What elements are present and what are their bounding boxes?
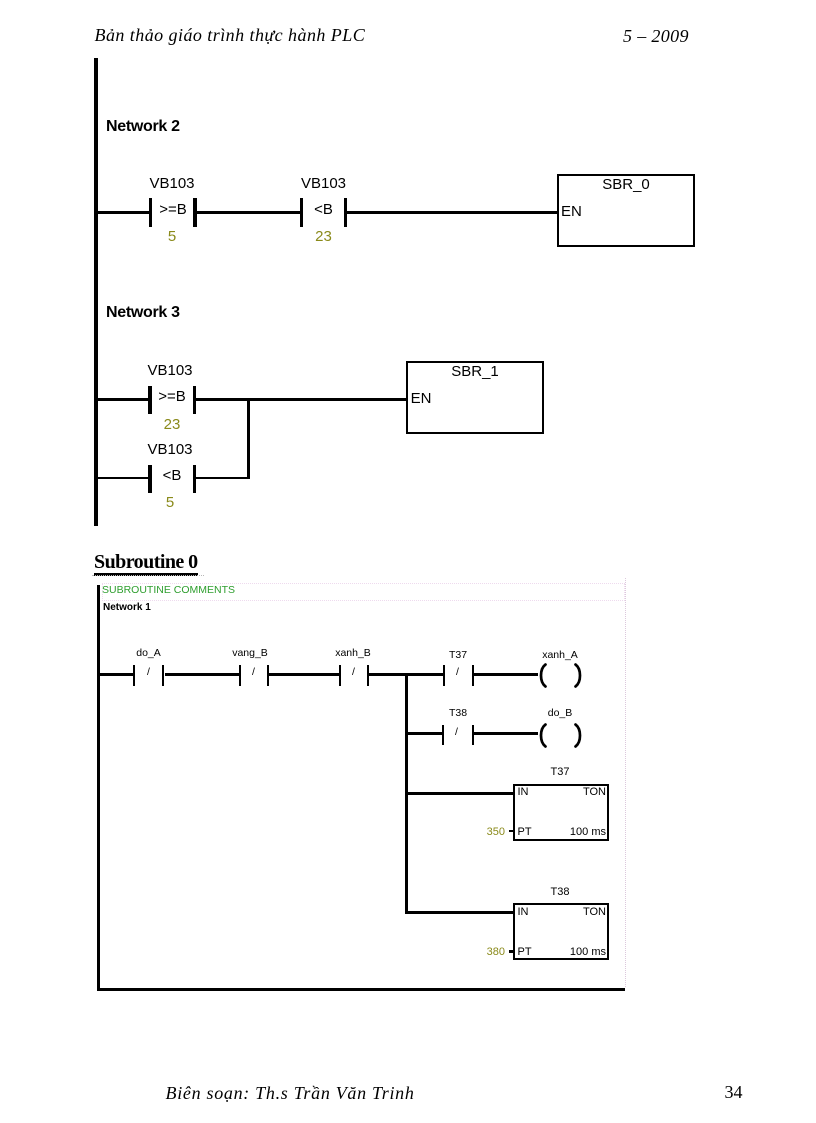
heading Subroutine 0 — [94, 551, 198, 574]
pin EN (SBR_1) — [411, 390, 432, 407]
wire rail to contact (N3 row1) — [96, 398, 149, 401]
label T37 (contact) — [428, 650, 488, 662]
wire rail stub rung1 — [99, 673, 133, 676]
contact xanh_B — [339, 665, 341, 686]
branch junction vertical (N3) — [247, 398, 251, 479]
timer box T38 TON — [513, 903, 609, 960]
label do_B — [530, 708, 590, 720]
net label Network 3 — [106, 304, 180, 322]
footer author — [166, 1083, 415, 1104]
subroutine frame top dotted stub — [92, 575, 204, 576]
branch junction vertical (rung1 down) — [405, 673, 408, 913]
value 23 (N3) — [132, 416, 212, 433]
contact VB103 >=B (N2) — [149, 198, 152, 227]
value 380 — [455, 946, 505, 959]
wire contact1 to contact2 — [197, 211, 300, 214]
timer box T37 TON — [513, 784, 609, 841]
header title — [95, 25, 366, 46]
subroutine frame right dotted — [625, 578, 626, 987]
pin TON (T38) — [513, 906, 606, 919]
wire rail to contact (N3 row2) — [96, 477, 149, 480]
wire contact2 to SBR_0 — [347, 211, 557, 214]
label T38 (contact) — [428, 708, 488, 720]
text SUBROUTINE COMMENTS — [102, 585, 235, 597]
coil xanh_A — [535, 663, 586, 688]
value 350 tick — [509, 830, 514, 833]
wire branch to T38 IN — [405, 911, 513, 914]
pin EN (SBR_0) — [561, 203, 582, 220]
contact T37 — [443, 665, 446, 686]
wire xanh_B to T37 contact — [369, 673, 443, 676]
value 5 (N2) — [132, 228, 212, 245]
label VB103 (N3 row2) — [130, 441, 210, 458]
pin PT (T38) — [518, 946, 532, 959]
contact VB103 <B (N3) — [148, 465, 151, 494]
contact VB103 >=B (N3) — [148, 386, 151, 415]
pin 100 ms (T37) — [513, 826, 606, 839]
comment marquee dotted rect — [102, 583, 625, 601]
label VB103 (N3 row1) — [130, 362, 210, 379]
heading underline — [94, 573, 198, 576]
value 350 — [455, 826, 505, 839]
header date — [623, 26, 689, 47]
net label Network 2 — [106, 118, 180, 136]
wire row2 to branch — [196, 477, 250, 480]
power rail (networks 2-3) — [94, 58, 98, 526]
label do_A — [119, 648, 179, 660]
wire rail to contact 1 — [96, 211, 149, 214]
subroutine frame left bar — [97, 585, 100, 988]
label T38 (timer) — [530, 886, 590, 899]
contact T38 — [442, 725, 445, 746]
value 23 (N2) — [284, 228, 364, 245]
label T37 (timer) — [530, 766, 590, 779]
pin IN (T38) — [518, 906, 529, 919]
pin 100 ms (T38) — [513, 946, 606, 959]
pin TON (T37) — [513, 786, 606, 799]
contact do_A — [133, 665, 135, 686]
net label Network 1 — [103, 602, 151, 613]
value 5 (N3) — [130, 494, 210, 511]
subroutine call box SBR_0 — [557, 174, 695, 247]
label VB103 (N2 second) — [284, 175, 364, 192]
label xanh_A — [530, 650, 590, 662]
label vang_B — [220, 648, 280, 660]
wire do_A to vang_B — [165, 673, 239, 676]
label VB103 (N2 first) — [132, 175, 212, 192]
subroutine call box SBR_1 — [406, 361, 544, 434]
value 380 tick — [509, 950, 514, 953]
wire T37 contact to coil — [474, 673, 538, 676]
contact vang_B — [239, 665, 241, 686]
subroutine frame bottom bar — [97, 988, 625, 991]
wire contact to SBR_1 — [196, 398, 406, 401]
coil do_B — [535, 723, 586, 748]
wire branch to T38 contact — [407, 732, 442, 735]
pin IN (T37) — [518, 786, 529, 799]
wire branch to T37 IN — [407, 792, 513, 795]
wire T38 contact to coil — [474, 732, 538, 735]
footer page number — [725, 1082, 743, 1103]
label xanh_B — [323, 648, 383, 660]
pin PT (T37) — [518, 826, 532, 839]
contact VB103 <B (N2) — [300, 198, 303, 227]
wire vang_B to xanh_B — [269, 673, 339, 676]
